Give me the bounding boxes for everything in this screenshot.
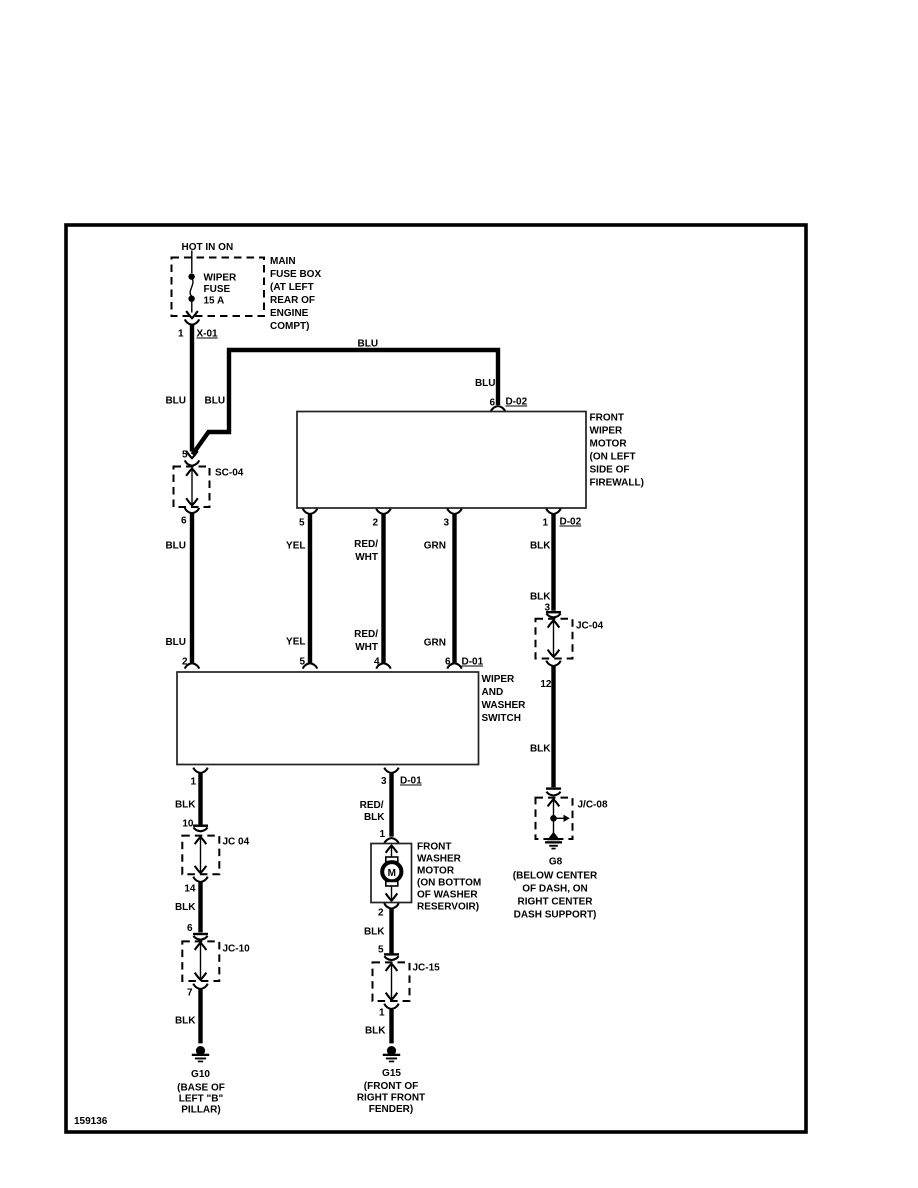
svg-text:GRN: GRN: [424, 638, 446, 649]
svg-text:(ON LEFT: (ON LEFT: [590, 452, 636, 463]
svg-text:D-01: D-01: [400, 776, 422, 787]
label FRONT WASHER MOTOR (ON BOTTOM OF WASHER RESERVOIR): [417, 842, 481, 913]
ground G8: [513, 832, 598, 921]
svg-text:7: 7: [187, 988, 193, 999]
svg-text:BLU: BLU: [205, 396, 226, 407]
svg-text:WHT: WHT: [355, 552, 378, 563]
connector switch pin 5: [299, 657, 317, 669]
svg-text:FIREWALL): FIREWALL): [590, 478, 644, 489]
svg-text:5: 5: [182, 450, 188, 461]
wire BLK JC-04 pin 12 to J/C-08: [530, 666, 554, 787]
front washer motor M1: [371, 844, 412, 903]
label 159136: [74, 1116, 108, 1127]
fuse F1 WIPER FUSE 15 A: [186, 251, 237, 319]
label HOT IN ON: [182, 242, 234, 253]
connector motor pin 1 D-02: [542, 509, 581, 529]
ground G15: [357, 1046, 425, 1115]
svg-text:BLK: BLK: [175, 902, 196, 913]
svg-text:RED/: RED/: [354, 629, 378, 640]
svg-text:G10: G10: [191, 1069, 210, 1080]
svg-text:SC-04: SC-04: [215, 468, 244, 479]
svg-text:2: 2: [378, 908, 384, 919]
svg-text:5: 5: [378, 945, 384, 956]
svg-text:BLU: BLU: [358, 339, 379, 350]
svg-text:6: 6: [187, 923, 193, 934]
wire BLU from SC-04 to switch pin 2: [165, 513, 192, 663]
svg-text:G8: G8: [549, 857, 563, 868]
svg-text:YEL: YEL: [286, 541, 305, 552]
svg-text:COMPT): COMPT): [270, 321, 309, 332]
connector switch pin 6 D-01: [445, 657, 484, 669]
wire BLK JC 04 pin 14 to JC-10: [175, 882, 201, 932]
wire BLK JC-10 pin 7 to G10: [175, 989, 201, 1043]
label FRONT WIPER MOTOR (ON LEFT SIDE OF FIREWALL): [590, 413, 644, 489]
svg-text:AND: AND: [482, 687, 504, 698]
label MAIN FUSE BOX (AT LEFT REAR OF ENGINE COMPT): [270, 256, 321, 332]
svg-text:REAR OF: REAR OF: [270, 295, 315, 306]
connector JC-15 pin 5: [373, 945, 441, 1019]
svg-text:JC-10: JC-10: [223, 944, 251, 955]
svg-text:FUSE: FUSE: [204, 284, 231, 295]
svg-text:X-01: X-01: [197, 329, 219, 340]
connector motor pin 3: [443, 509, 461, 529]
svg-text:ENGINE: ENGINE: [270, 308, 309, 319]
svg-text:JC-15: JC-15: [413, 963, 441, 974]
svg-text:BLU: BLU: [475, 378, 496, 389]
svg-text:BLK: BLK: [365, 1026, 386, 1037]
svg-text:JC-04: JC-04: [576, 621, 604, 632]
svg-text:WASHER: WASHER: [417, 854, 462, 865]
svg-text:(FRONT OF: (FRONT OF: [364, 1081, 418, 1092]
connector J/C-08 with ground branch: [536, 787, 608, 839]
fuse box dashed outline: [172, 258, 265, 317]
svg-text:D-02: D-02: [506, 397, 528, 408]
svg-text:WHT: WHT: [355, 642, 378, 653]
svg-text:RIGHT CENTER: RIGHT CENTER: [518, 897, 594, 908]
svg-text:(BELOW CENTER: (BELOW CENTER: [513, 871, 598, 882]
svg-text:D-01: D-01: [462, 657, 484, 668]
wire BLK motor pin1 to JC-04: [530, 514, 554, 611]
svg-text:BLU: BLU: [165, 396, 186, 407]
svg-text:BLU: BLU: [165, 637, 186, 648]
svg-text:1: 1: [379, 829, 385, 840]
svg-text:D-02: D-02: [560, 517, 582, 528]
svg-text:SIDE OF: SIDE OF: [590, 465, 630, 476]
svg-text:3: 3: [381, 776, 387, 787]
connector washer motor pin 1: [379, 829, 398, 843]
svg-text:SWITCH: SWITCH: [482, 713, 521, 724]
wire RED/BLK switch pin3 to washer motor: [360, 773, 392, 837]
svg-text:6: 6: [181, 516, 187, 527]
svg-text:MOTOR: MOTOR: [417, 866, 455, 877]
svg-text:BLK: BLK: [364, 927, 385, 938]
svg-text:1: 1: [190, 777, 196, 788]
ground G10: [177, 1046, 225, 1116]
svg-text:BLK: BLK: [364, 812, 385, 823]
svg-text:2: 2: [372, 518, 378, 529]
svg-text:3: 3: [443, 518, 449, 529]
svg-text:1: 1: [178, 329, 184, 340]
svg-text:OF WASHER: OF WASHER: [417, 890, 478, 901]
connector washer motor pin 2: [378, 903, 399, 918]
connector D-02 pin 6 into wiper motor: [489, 397, 527, 412]
svg-text:10: 10: [182, 819, 194, 830]
connector motor pin 2: [372, 509, 390, 529]
connector switch pin 1 bottom: [190, 768, 207, 788]
wiper and washer switch box S1: [177, 672, 479, 765]
wire BLU horizontal to D-02: [227, 339, 498, 406]
wire BLK washer motor to JC-15: [364, 909, 392, 954]
svg-text:15 A: 15 A: [204, 296, 225, 307]
svg-text:4: 4: [374, 657, 380, 668]
svg-text:159136: 159136: [74, 1116, 108, 1127]
svg-text:5: 5: [299, 518, 305, 529]
svg-text:YEL: YEL: [286, 637, 305, 648]
svg-text:RED/: RED/: [360, 800, 384, 811]
wire BLU branch with corner jog: [193, 352, 230, 455]
svg-text:RESERVOIR): RESERVOIR): [417, 902, 479, 913]
svg-text:J/C-08: J/C-08: [578, 800, 608, 811]
svg-text:GRN: GRN: [424, 541, 446, 552]
connector switch pin 4: [374, 657, 391, 669]
svg-text:(BASE OF: (BASE OF: [177, 1083, 225, 1094]
svg-text:RED/: RED/: [354, 539, 378, 550]
svg-text:M: M: [388, 868, 396, 879]
connector motor pin 5: [299, 509, 317, 529]
wire BLK JC-15 pin 1 to G15: [365, 1009, 392, 1043]
svg-text:(ON BOTTOM: (ON BOTTOM: [417, 878, 481, 889]
connector JC-10 pin 6: [182, 923, 250, 999]
wire BLK switch pin1 to JC 04: [175, 773, 201, 825]
svg-text:MOTOR: MOTOR: [590, 439, 628, 450]
svg-text:WIPER: WIPER: [482, 674, 516, 685]
svg-text:FUSE BOX: FUSE BOX: [270, 269, 321, 280]
svg-text:DASH SUPPORT): DASH SUPPORT): [514, 910, 597, 921]
svg-text:FRONT: FRONT: [417, 842, 451, 853]
svg-text:12: 12: [540, 679, 552, 690]
svg-text:WASHER: WASHER: [482, 700, 527, 711]
connector JC-04 pin 3: [536, 603, 604, 691]
svg-text:1: 1: [379, 1008, 385, 1019]
svg-text:BLK: BLK: [175, 800, 196, 811]
svg-text:BLK: BLK: [530, 592, 551, 603]
svg-text:OF DASH, ON: OF DASH, ON: [522, 884, 588, 895]
svg-text:FRONT: FRONT: [590, 413, 624, 424]
svg-text:(AT LEFT: (AT LEFT: [270, 282, 314, 293]
connector X-01 pin 1: [178, 319, 218, 339]
connector switch pin 2: [182, 657, 199, 669]
svg-text:JC 04: JC 04: [223, 837, 250, 848]
wire GRN motor pin3 to switch pin6: [424, 514, 455, 663]
svg-text:HOT IN ON: HOT IN ON: [182, 242, 234, 253]
label WIPER AND WASHER SWITCH: [482, 674, 527, 724]
svg-text:1: 1: [542, 518, 548, 529]
svg-text:BLK: BLK: [530, 744, 551, 755]
node junction pin 5 arrow into SC-04: [182, 450, 198, 461]
wire YEL motor pin5 to switch pin5: [286, 514, 310, 663]
svg-text:RIGHT FRONT: RIGHT FRONT: [357, 1093, 425, 1104]
svg-text:LEFT "B": LEFT "B": [179, 1094, 224, 1105]
wire RED/WHT motor pin2 to switch pin4: [354, 514, 383, 663]
svg-text:6: 6: [489, 398, 495, 409]
front wiper motor box U1: [297, 412, 586, 509]
connector JC 04 pin 10: [182, 819, 249, 895]
svg-text:BLK: BLK: [175, 1016, 196, 1027]
connector SC-04: [174, 460, 244, 526]
wire BLU from fuse to SC-04: [165, 325, 192, 452]
svg-text:G15: G15: [382, 1068, 401, 1079]
svg-text:MAIN: MAIN: [270, 256, 296, 267]
svg-text:WIPER: WIPER: [590, 426, 624, 437]
svg-text:6: 6: [445, 657, 451, 668]
svg-text:2: 2: [182, 657, 188, 668]
svg-text:5: 5: [299, 657, 305, 668]
connector switch pin 3 D-01 bottom: [381, 768, 422, 787]
svg-text:BLU: BLU: [165, 541, 186, 552]
svg-text:BLK: BLK: [530, 541, 551, 552]
svg-text:14: 14: [184, 884, 196, 895]
svg-text:WIPER: WIPER: [204, 273, 238, 284]
svg-text:PILLAR): PILLAR): [181, 1105, 220, 1116]
svg-text:FENDER): FENDER): [369, 1104, 413, 1115]
